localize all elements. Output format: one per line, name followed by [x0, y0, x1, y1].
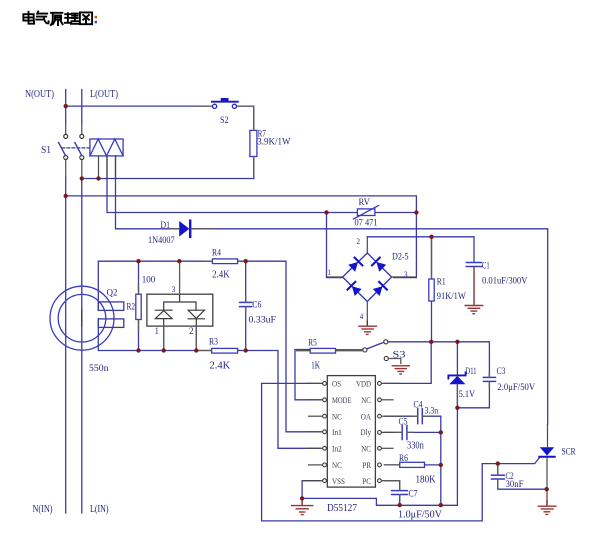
svg-text:2: 2	[357, 237, 361, 246]
IC pin circles right	[378, 382, 382, 483]
svg-text:C3: C3	[497, 367, 506, 377]
wire D11 vertical	[456, 342, 458, 505]
ground C1	[465, 267, 483, 314]
junction (138.5,350.5)	[136, 348, 140, 352]
varistor RV	[354, 206, 379, 220]
bridge diode top-right	[372, 258, 387, 273]
pin stubs gray	[139, 109, 498, 500]
svg-text:100: 100	[142, 276, 156, 286]
svg-text:RV: RV	[359, 198, 371, 208]
wire R6 to right vertical	[425, 464, 441, 466]
wire relay pin3 to D1	[116, 156, 180, 229]
wire L vertical below S1	[81, 178, 83, 513]
junction (431.2,341.8)	[429, 340, 433, 344]
diode D1	[170, 221, 214, 237]
wire N long rail	[66, 196, 417, 278]
wire VDD up	[385, 342, 432, 384]
svg-text:3: 3	[404, 270, 408, 279]
svg-text:C7: C7	[409, 490, 418, 500]
svg-text:3: 3	[172, 284, 176, 294]
wire R1 top lead	[431, 237, 433, 279]
capacitor C6	[240, 302, 252, 306]
breaker coil pins	[99, 156, 116, 179]
svg-text:2.4K: 2.4K	[212, 270, 230, 281]
wire R5 left to MODE	[295, 350, 321, 400]
resistor R3	[212, 348, 238, 353]
title 电气原理图:	[23, 12, 92, 26]
svg-text:C1: C1	[482, 262, 490, 272]
wire C2 drop	[498, 464, 547, 490]
capacitor C7	[392, 491, 408, 495]
junction (431.5,236.8)	[429, 235, 433, 239]
junction (440.8,464.9)	[439, 463, 443, 467]
Q2 winding bars	[98, 302, 124, 328]
opto-triac U2 box	[147, 294, 213, 326]
svg-text:0.33uF: 0.33uF	[249, 316, 277, 326]
svg-text:R6: R6	[399, 454, 408, 464]
IC pin circles left	[323, 382, 327, 483]
svg-text:VSS: VSS	[332, 477, 345, 486]
svg-text:R2: R2	[127, 303, 136, 313]
junction (440.8,505.1)	[439, 503, 443, 507]
svg-text:1N4007: 1N4007	[148, 236, 175, 246]
svg-text:In2: In2	[332, 445, 342, 454]
wire N vertical below S1	[65, 177, 67, 513]
svg-text:SCR: SCR	[562, 448, 577, 458]
wire opto pin1 lead	[163, 326, 165, 350]
svg-text:D11: D11	[466, 367, 477, 377]
wire C4 to right vertical	[423, 416, 441, 505]
ground VSS	[292, 498, 313, 514]
svg-text:07 471: 07 471	[355, 219, 378, 229]
svg-text:4: 4	[360, 312, 364, 321]
wire R3 right to In2	[237, 351, 321, 449]
bridge diode bottom-left	[348, 282, 363, 297]
capacitor C2	[492, 475, 505, 479]
wire opto pin2 lead	[195, 326, 197, 350]
svg-text:1.0μF/50V: 1.0μF/50V	[398, 509, 443, 520]
wire PR to R6	[385, 464, 400, 466]
junction (416.4,212.5)	[414, 210, 418, 214]
svg-text:2.4K: 2.4K	[210, 360, 232, 371]
wire C3 bottom to D11	[457, 382, 489, 408]
junction (196.3,350.5)	[194, 348, 198, 352]
svg-text:0.01uF/300V: 0.01uF/300V	[482, 277, 528, 287]
svg-text:NC: NC	[361, 396, 371, 405]
junction (457.4,407.8)	[455, 406, 459, 410]
ground bridge	[359, 322, 377, 335]
svg-text:NC: NC	[361, 445, 371, 454]
transformer Q2 toroid	[50, 286, 114, 350]
svg-text:2: 2	[189, 326, 194, 336]
switch S3	[363, 340, 389, 361]
junction (138.5,261.2)	[136, 259, 140, 263]
svg-text:91K/1W: 91K/1W	[437, 292, 466, 302]
capacitor C5	[402, 426, 407, 440]
svg-text:In1: In1	[332, 428, 342, 437]
junction (245.7,350.5)	[244, 348, 248, 352]
IC NC stubs	[309, 400, 394, 465]
svg-text:R4: R4	[212, 249, 221, 259]
breaker coil (relay box with triangles)	[90, 139, 123, 156]
svg-text:180K: 180K	[416, 475, 437, 486]
wire S3 rail to C3	[388, 342, 490, 377]
resistor R4	[212, 259, 237, 264]
wire C7 bottom	[399, 495, 401, 505]
svg-text:30nF: 30nF	[506, 479, 524, 489]
wire L vertical top	[81, 90, 83, 124]
junction (546.7,489.2)	[545, 487, 549, 491]
svg-text:OA: OA	[361, 412, 371, 421]
ground SCR	[538, 501, 556, 514]
thyristor SCR	[539, 447, 554, 457]
bridge diode top-left	[348, 258, 363, 273]
wire C6 branch	[245, 261, 247, 350]
wire R5 right to S3	[336, 349, 363, 351]
svg-text:1: 1	[155, 326, 159, 336]
junction (81.8,178.5)	[80, 176, 84, 180]
svg-text:550n: 550n	[89, 364, 109, 374]
bridge D2-5	[343, 253, 392, 302]
wire VSS to ground	[302, 481, 321, 499]
wire PC to C7	[385, 481, 400, 490]
opto internals	[155, 294, 204, 326]
svg-text:L(OUT): L(OUT)	[90, 89, 118, 100]
IC pin names left	[332, 380, 352, 486]
resistor R5	[310, 348, 335, 353]
svg-text:5.1V: 5.1V	[459, 390, 476, 400]
svg-text:C5: C5	[399, 418, 408, 428]
wire N vertical top	[65, 90, 67, 124]
wire bridge pin2 to C1	[367, 237, 474, 262]
bridge diode bottom-right	[372, 282, 387, 297]
wire N to S2	[66, 105, 212, 107]
svg-text:D2-5: D2-5	[392, 253, 409, 263]
junction (163.7,350.5)	[162, 348, 166, 352]
svg-text:R5: R5	[308, 338, 317, 348]
wire C5 right lead	[408, 431, 441, 433]
capacitor C3	[483, 377, 495, 381]
junction (399.7,505.1)	[398, 503, 402, 507]
svg-text:3.9K/1W: 3.9K/1W	[257, 137, 290, 147]
wire R2 leads	[138, 261, 140, 350]
wire R4 right to In1 corner	[237, 261, 320, 432]
svg-text:N(OUT): N(OUT)	[25, 89, 54, 100]
svg-text:2.0μF/50V: 2.0μF/50V	[497, 383, 535, 393]
junction (302.1,498.4)	[300, 496, 304, 500]
svg-text:C6: C6	[252, 301, 261, 311]
wire R1 bottom lead	[431, 301, 433, 342]
svg-text:L(IN): L(IN)	[90, 504, 109, 515]
svg-text:3.3n: 3.3n	[425, 407, 439, 417]
pushbutton S2	[197, 98, 254, 108]
resistor R6	[400, 462, 425, 467]
svg-text:NC: NC	[332, 412, 342, 421]
svg-text:C4: C4	[414, 401, 423, 411]
IC pin names right	[356, 380, 372, 486]
svg-text:Dly: Dly	[361, 428, 372, 437]
svg-text:Q2: Q2	[107, 289, 118, 299]
wire OA to C4	[385, 415, 418, 417]
wire R7 bottom to L rail	[82, 157, 254, 179]
wire D1 to SCR anode	[191, 229, 548, 424]
wire opto top rail	[98, 261, 211, 310]
wire bridge pin1 drop	[327, 213, 343, 278]
capacitor C1	[466, 263, 481, 267]
svg-text:NC: NC	[332, 461, 342, 470]
svg-text:N(IN): N(IN)	[33, 504, 53, 515]
junction (245.7,261.2)	[244, 259, 248, 263]
resistor R7	[250, 130, 257, 156]
junction (326.5,212.5)	[324, 210, 328, 214]
junction (440.8,432.4)	[439, 430, 443, 434]
svg-text:1: 1	[328, 268, 332, 277]
svg-text:D55127: D55127	[327, 503, 357, 514]
ground S3	[392, 366, 409, 374]
svg-text:1K: 1K	[311, 360, 321, 371]
svg-text:PR: PR	[362, 461, 371, 470]
svg-text:MODE: MODE	[332, 396, 352, 405]
wire Dly to C5	[385, 431, 402, 433]
svg-text:PC: PC	[362, 477, 371, 486]
junction (179.4,261.2)	[177, 259, 181, 263]
wire IC bottom rail	[302, 498, 457, 505]
svg-text:R3: R3	[209, 338, 218, 348]
capacitor C4	[418, 409, 423, 424]
svg-text:VDD: VDD	[356, 380, 371, 389]
wire opto bottom rail	[98, 319, 211, 351]
junction (98.5,178.5)	[96, 176, 100, 180]
junction (497.8,463.6)	[496, 461, 500, 465]
svg-text:R1: R1	[437, 278, 446, 288]
wire RV rail	[107, 156, 416, 213]
junction (457.4,341.8)	[455, 340, 459, 344]
IC U1 box	[327, 376, 375, 488]
svg-text:S2: S2	[220, 116, 229, 126]
zener D11	[448, 372, 465, 384]
wire S2 to R7 top	[236, 106, 254, 130]
junction (65.7,195.9)	[63, 194, 67, 198]
svg-text:D1: D1	[161, 221, 171, 231]
wire SCR gate line	[482, 457, 540, 464]
switch S1	[59, 123, 90, 178]
resistor R2	[136, 294, 141, 319]
resistor R1	[429, 279, 434, 301]
svg-text:S1: S1	[41, 145, 51, 156]
svg-text:OS: OS	[332, 380, 341, 389]
title colon	[95, 16, 97, 23]
wire OS to bottom	[262, 383, 483, 521]
IC pin stubs	[302, 383, 404, 480]
svg-text:330n: 330n	[407, 441, 424, 452]
wire C1 to ground	[473, 267, 475, 305]
junction (65.7,106.1)	[63, 104, 67, 108]
